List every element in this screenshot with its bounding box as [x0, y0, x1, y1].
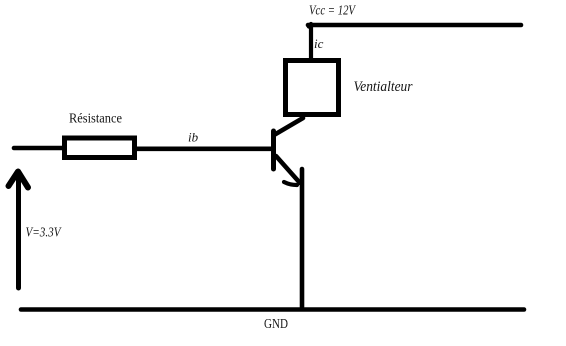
svg-text:ib: ib — [188, 130, 199, 145]
transistor Q1 collector lead (diagonal) — [274, 118, 303, 135]
svg-text:Ventialteur: Ventialteur — [354, 79, 413, 95]
source arrow V=3.3V shaft — [16, 173, 21, 288]
transistor Q1 emitter lead (diagonal with arrow) — [276, 156, 300, 183]
wire base left segment (to resistor) — [14, 146, 63, 151]
svg-text:Vcc = 12V: Vcc = 12V — [309, 4, 356, 19]
wire collector (Vcc rail to fan box) — [309, 24, 313, 60]
svg-text:V=3.3V: V=3.3V — [26, 226, 62, 241]
svg-text:ic: ic — [314, 36, 324, 51]
resistor R1 — [65, 138, 135, 158]
junction blob at rail start — [307, 24, 312, 29]
wire base right segment (resistor to base) — [137, 147, 271, 152]
transistor Q1 base bar — [271, 131, 276, 169]
net Vcc: top supply rail — [308, 23, 521, 28]
fan load box (Ventialteur) — [286, 61, 339, 115]
svg-text:GND: GND — [264, 317, 288, 332]
net GND: bottom ground rail — [21, 307, 524, 312]
transistor Q1 emitter arrowhead wing — [284, 182, 297, 185]
wire emitter to ground rail — [300, 169, 305, 307]
svg-text:Résistance: Résistance — [69, 112, 122, 127]
source arrow V=3.3V head — [9, 172, 29, 188]
